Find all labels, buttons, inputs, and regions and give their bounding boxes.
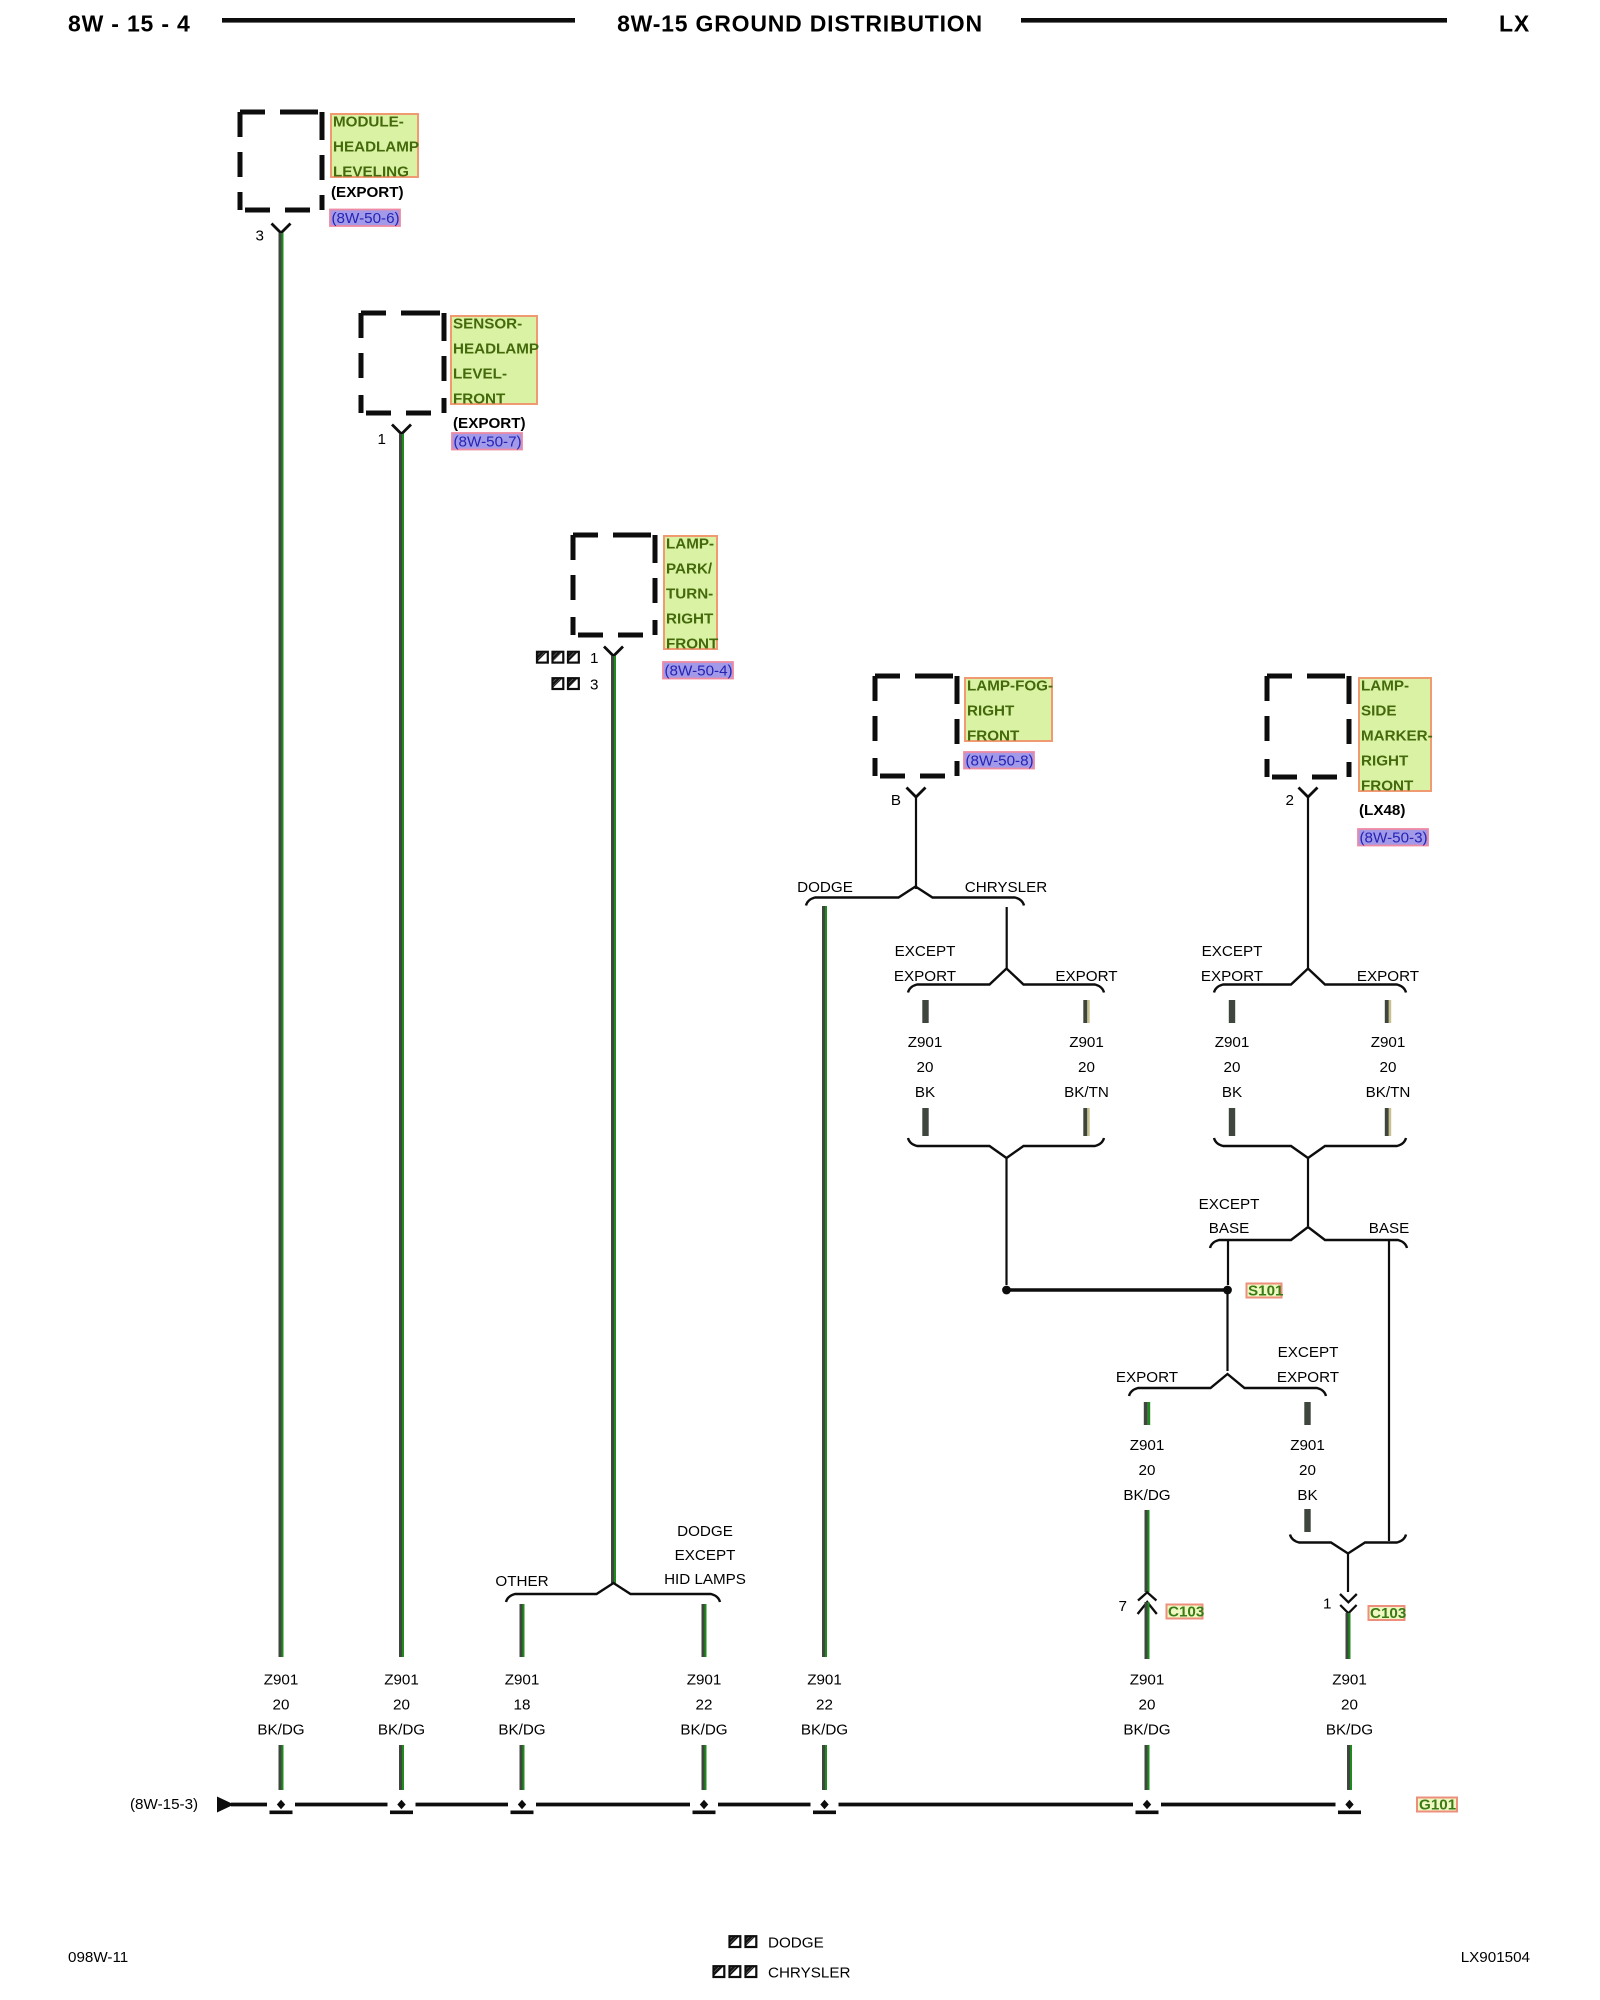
svg-text:DODGE: DODGE [797, 879, 853, 896]
svg-text:CHRYSLER: CHRYSLER [965, 879, 1047, 896]
svg-text:Z901: Z901 [1069, 1034, 1104, 1051]
svg-text:Z901: Z901 [1215, 1034, 1250, 1051]
svg-text:BK/DG: BK/DG [257, 1722, 304, 1739]
svg-text:EXPORT: EXPORT [1116, 1369, 1178, 1386]
svg-text:BK/TN: BK/TN [1366, 1084, 1411, 1101]
svg-text:20: 20 [1139, 1697, 1156, 1714]
svg-text:Z901: Z901 [1130, 1437, 1165, 1454]
svg-text:Z901: Z901 [1290, 1437, 1325, 1454]
svg-text:20: 20 [393, 1697, 410, 1714]
svg-text:EXPORT: EXPORT [1357, 968, 1419, 985]
svg-text:SENSOR-: SENSOR- [453, 316, 522, 333]
svg-text:1: 1 [1323, 1596, 1331, 1613]
svg-text:BK/DG: BK/DG [680, 1722, 727, 1739]
svg-text:BASE: BASE [1369, 1220, 1410, 1237]
svg-text:SIDE: SIDE [1361, 703, 1396, 720]
svg-text:RIGHT: RIGHT [1361, 753, 1409, 770]
svg-text:(EXPORT): (EXPORT) [331, 184, 404, 201]
svg-text:22: 22 [696, 1697, 713, 1714]
svg-text:BK/DG: BK/DG [378, 1722, 425, 1739]
svg-text:BASE: BASE [1209, 1220, 1250, 1237]
svg-text:20: 20 [273, 1697, 290, 1714]
svg-text:1: 1 [590, 650, 598, 667]
svg-text:HID LAMPS: HID LAMPS [664, 1571, 746, 1588]
svg-text:(8W-50-7): (8W-50-7) [454, 434, 522, 451]
svg-text:C103: C103 [1370, 1605, 1406, 1622]
svg-text:FRONT: FRONT [967, 728, 1020, 745]
svg-text:OTHER: OTHER [495, 1573, 548, 1590]
svg-text:098W-11: 098W-11 [68, 1949, 128, 1966]
svg-text:EXPORT: EXPORT [894, 968, 956, 985]
svg-text:BK: BK [1297, 1487, 1317, 1504]
svg-text:HEADLAMP: HEADLAMP [333, 139, 419, 156]
svg-text:(8W-15-3): (8W-15-3) [130, 1796, 198, 1813]
svg-text:B: B [891, 792, 901, 809]
svg-text:FRONT: FRONT [1361, 778, 1414, 795]
svg-text:20: 20 [1139, 1462, 1156, 1479]
svg-text:BK/DG: BK/DG [801, 1722, 848, 1739]
svg-text:C103: C103 [1168, 1604, 1204, 1621]
svg-text:BK/DG: BK/DG [498, 1722, 545, 1739]
svg-text:(EXPORT): (EXPORT) [453, 415, 526, 432]
svg-text:BK/TN: BK/TN [1064, 1084, 1109, 1101]
svg-text:8W - 15 - 4: 8W - 15 - 4 [68, 11, 191, 37]
svg-text:MARKER-: MARKER- [1361, 728, 1433, 745]
svg-text:FRONT: FRONT [666, 636, 719, 653]
svg-text:20: 20 [1380, 1059, 1397, 1076]
svg-text:LX901504: LX901504 [1461, 1949, 1530, 1966]
svg-text:20: 20 [1299, 1462, 1316, 1479]
svg-text:LAMP-: LAMP- [666, 536, 714, 553]
svg-text:Z901: Z901 [1332, 1672, 1367, 1689]
svg-text:G101: G101 [1419, 1797, 1457, 1814]
svg-text:1: 1 [378, 431, 386, 448]
svg-text:EXPORT: EXPORT [1201, 968, 1263, 985]
svg-text:PARK/: PARK/ [666, 561, 713, 578]
svg-text:LEVELING: LEVELING [333, 164, 409, 181]
svg-text:EXCEPT: EXCEPT [675, 1547, 736, 1564]
svg-text:EXCEPT: EXCEPT [1202, 943, 1263, 960]
svg-text:20: 20 [917, 1059, 934, 1076]
svg-text:RIGHT: RIGHT [666, 611, 714, 628]
svg-text:3: 3 [590, 677, 598, 694]
svg-text:LX: LX [1499, 11, 1530, 37]
svg-text:(8W-50-3): (8W-50-3) [1360, 830, 1428, 847]
svg-text:FRONT: FRONT [453, 391, 506, 408]
svg-text:20: 20 [1341, 1697, 1358, 1714]
svg-text:Z901: Z901 [505, 1672, 540, 1689]
svg-text:EXCEPT: EXCEPT [895, 943, 956, 960]
svg-text:BK: BK [915, 1084, 935, 1101]
svg-text:Z901: Z901 [1130, 1672, 1165, 1689]
svg-text:LAMP-FOG-: LAMP-FOG- [967, 678, 1053, 695]
svg-text:Z901: Z901 [807, 1672, 842, 1689]
svg-text:(LX48): (LX48) [1359, 802, 1405, 819]
svg-text:Z901: Z901 [687, 1672, 722, 1689]
svg-text:LEVEL-: LEVEL- [453, 366, 507, 383]
svg-text:LAMP-: LAMP- [1361, 678, 1409, 695]
svg-text:BK: BK [1222, 1084, 1242, 1101]
svg-text:20: 20 [1078, 1059, 1095, 1076]
svg-text:8W-15 GROUND DISTRIBUTION: 8W-15 GROUND DISTRIBUTION [617, 11, 983, 37]
svg-text:BK/DG: BK/DG [1123, 1487, 1170, 1504]
svg-text:(8W-50-8): (8W-50-8) [966, 753, 1034, 770]
svg-text:BK/DG: BK/DG [1123, 1722, 1170, 1739]
svg-text:20: 20 [1224, 1059, 1241, 1076]
svg-text:EXPORT: EXPORT [1055, 968, 1117, 985]
svg-text:22: 22 [816, 1697, 833, 1714]
svg-text:CHRYSLER: CHRYSLER [768, 1965, 850, 1982]
svg-text:Z901: Z901 [1371, 1034, 1406, 1051]
svg-text:RIGHT: RIGHT [967, 703, 1015, 720]
svg-text:Z901: Z901 [908, 1034, 943, 1051]
svg-text:TURN-: TURN- [666, 586, 713, 603]
svg-text:DODGE: DODGE [677, 1523, 733, 1540]
svg-text:EXPORT: EXPORT [1277, 1369, 1339, 1386]
svg-text:EXCEPT: EXCEPT [1278, 1344, 1339, 1361]
svg-text:EXCEPT: EXCEPT [1199, 1196, 1260, 1213]
svg-text:7: 7 [1119, 1598, 1127, 1615]
svg-text:DODGE: DODGE [768, 1935, 824, 1952]
svg-text:Z901: Z901 [264, 1672, 299, 1689]
svg-text:3: 3 [256, 228, 264, 245]
svg-text:S101: S101 [1248, 1283, 1284, 1300]
svg-text:(8W-50-4): (8W-50-4) [665, 663, 733, 680]
svg-text:(8W-50-6): (8W-50-6) [332, 210, 400, 227]
svg-text:BK/DG: BK/DG [1326, 1722, 1373, 1739]
svg-text:Z901: Z901 [384, 1672, 419, 1689]
svg-text:2: 2 [1286, 792, 1294, 809]
svg-text:HEADLAMP: HEADLAMP [453, 341, 539, 358]
svg-text:MODULE-: MODULE- [333, 114, 404, 131]
svg-text:18: 18 [514, 1697, 531, 1714]
